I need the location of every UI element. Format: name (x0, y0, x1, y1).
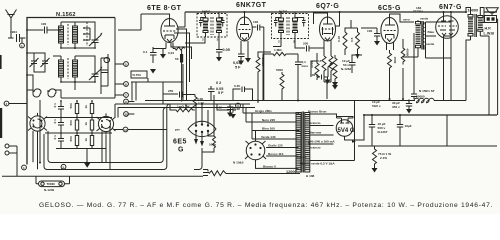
tube V1 6TE8 envelope (161, 19, 178, 43)
speaker horn (486, 8, 498, 13)
junction (339, 11, 341, 13)
bus: second left vertical (39, 100, 41, 163)
wire: mid net links (258, 52, 328, 101)
svg-text:L.W.B: L.W.B (484, 32, 495, 36)
wire: bias rail right (434, 100, 466, 102)
svg-text:5: 5 (63, 165, 65, 169)
svg-text:11: 11 (124, 128, 128, 132)
resistor 45000 vert (401, 45, 409, 65)
svg-text:M.791: M.791 (202, 10, 211, 14)
svg-text:0 2: 0 2 (216, 81, 221, 85)
coil small curl B (48, 89, 56, 97)
bus: ground line full width (2, 175, 203, 177)
junction (244, 11, 246, 13)
junction (74, 47, 76, 49)
ground cathode (150, 54, 166, 74)
T2 trimmer caps (274, 18, 306, 27)
terminal 3 (near 6E5) (236, 103, 241, 108)
resistor 0.04 (cathode zigzag) (168, 47, 185, 55)
resistor 0.5meg vert (V3 grid leak) (317, 56, 326, 74)
svg-text:per: per (175, 128, 181, 132)
tube V5 6N7 envelope (436, 16, 459, 39)
wire: tap 240 (310, 143, 334, 145)
svg-text:Bianco: Bianco (296, 155, 306, 159)
svg-text:TONO: TONO (47, 182, 56, 186)
svg-text:500: 500 (69, 120, 73, 125)
wire: trimmer tops (27, 53, 45, 72)
ground V2 cathode (238, 58, 251, 65)
svg-text:1904: 1904 (10, 30, 17, 34)
curl osc (104, 57, 110, 62)
oscillator section wires (101, 54, 108, 94)
resistor 30000 vert (screen feed) (256, 55, 265, 103)
wire: oscillator link (131, 64, 183, 100)
capacitor 0.025 (6E5) (227, 104, 240, 113)
arrow down AVC (356, 54, 360, 59)
PT tap Bleu 160 (252, 127, 299, 131)
svg-text:100: 100 (41, 22, 46, 26)
capacitor 100 (plate bypass) (310, 73, 328, 80)
bias grid column x61 capacitor (53, 101, 64, 149)
voltage selector socket (245, 141, 266, 164)
junction dots rails (39, 98, 410, 164)
terminal 6 (115, 82, 128, 87)
svg-text:N·1249: N·1249 (44, 188, 54, 192)
coil small curl A (33, 89, 41, 97)
arrow 240 (352, 140, 356, 143)
bus: mid horizontal rails (145, 100, 415, 102)
wire: under 6Q7 (324, 74, 331, 99)
svg-text:5: 5 (125, 63, 127, 67)
resistor 1meg (6E5 grid) (174, 105, 195, 112)
junction (465, 11, 467, 13)
wire: curls to bottom (27, 75, 61, 98)
svg-text:3: 3 (237, 104, 239, 108)
coil L2 primary (59, 56, 64, 82)
wire: AVC rail (345, 20, 358, 55)
mains cord wavy (209, 171, 228, 176)
capacitor 100 (38, 22, 59, 34)
ground mid-bottom (84, 163, 90, 168)
wire: box bottom stubs (61, 90, 115, 98)
resistor 50 (solid) (175, 54, 183, 63)
electrolytic 16uF 500v a (369, 115, 388, 146)
capacitor 0.45 (234, 84, 249, 92)
T2 core (287, 17, 289, 35)
T1 trimmer caps (199, 18, 225, 27)
svg-text:1k: 1k (84, 122, 88, 126)
svg-text:50: 50 (175, 57, 179, 61)
junction (74, 81, 76, 83)
svg-text:500: 500 (69, 103, 73, 108)
arrow 6E5 pin (194, 139, 204, 147)
svg-text:Arancio: Arancio (309, 121, 321, 125)
svg-text:6N7·G: 6N7·G (439, 4, 462, 11)
wire: V4 cathode down (352, 55, 390, 99)
socket B (output tubes, bottom view) (97, 113, 116, 134)
svg-text:Giallo 125: Giallo 125 (268, 144, 283, 148)
wire: T3 primary bottom (403, 56, 418, 58)
wire: 6E5 pins (170, 95, 225, 141)
svg-text:Nero 220: Nero 220 (262, 118, 275, 122)
PT tap Rosso 110 (266, 152, 299, 156)
electrolytic 30uF 350v (392, 101, 412, 110)
svg-text:2: 2 (6, 102, 8, 106)
capacitor 250 osc pad (168, 89, 188, 98)
wire: grid entry (361, 27, 377, 29)
ground 30uF (406, 109, 412, 114)
T1 secondary coil (217, 16, 222, 37)
wire: drops to 6E5 rail (211, 89, 253, 101)
resistor 75ohm 1W (373, 146, 392, 168)
T2 primary coil (279, 16, 284, 39)
PT tap Verde 140 (252, 135, 299, 139)
wire: T1 pins (185, 12, 219, 43)
wire: 5V4 cathode out (345, 115, 365, 140)
terminal 9 (124, 99, 135, 104)
capacitor 1904 (antenna series) (8, 30, 26, 42)
wire: L2 connections (53, 56, 95, 90)
tube V4 internals (384, 17, 397, 50)
tube V2 internals (239, 17, 251, 48)
junction (280, 11, 282, 13)
wire: 6E5 bottom (194, 148, 214, 170)
junction dots bias (60, 100, 93, 134)
wire: grid lead into box (26, 29, 38, 31)
bus: rounded rail B (48, 108, 255, 163)
svg-text:0.45: 0.45 (234, 84, 240, 88)
wire: coil box top border (27, 18, 115, 100)
electrolytic 10uF (341, 58, 356, 71)
ground pot (332, 82, 338, 87)
svg-text:6Q7·G: 6Q7·G (316, 3, 339, 10)
tube V3 6Q7 envelope (320, 17, 336, 41)
svg-text:1k: 1k (84, 105, 88, 109)
label per 6E5 G (173, 128, 187, 154)
svg-text:45000: 45000 (406, 49, 410, 58)
svg-text:5 F: 5 F (235, 66, 241, 70)
wire: secondary to right bus (480, 35, 489, 37)
svg-text:G: G (178, 147, 184, 154)
T2 secondary coil (293, 16, 298, 39)
trimmer capacitor P2 (41, 56, 50, 69)
resistor 0.08 1W (191, 95, 204, 109)
coil L1 primary (59, 22, 64, 48)
T3 core (422, 21, 423, 50)
resistor 1meg vert (329, 56, 333, 74)
svg-text:0.5: 0.5 (350, 37, 354, 42)
terminal 15 (22, 165, 27, 170)
wire: cord to selector (228, 173, 300, 175)
svg-text:tono: tono (302, 64, 309, 68)
bus: rounded rail A (44, 104, 250, 170)
core L2 (67, 58, 69, 79)
svg-text:500: 500 (69, 136, 73, 141)
capacitor 0.05 5F mid (208, 86, 224, 101)
ground 75ohm (372, 168, 378, 173)
svg-text:250: 250 (168, 89, 173, 93)
svg-text:verde: verde (420, 17, 429, 21)
wire: grid top cap to band (118, 14, 170, 30)
resistor 1meg horizontal (271, 48, 288, 56)
svg-text:Bianco verde 6,3 V 1&A: Bianco verde 6,3 V 1&A (300, 162, 335, 166)
bias grid column x77 resistor 500 (69, 101, 79, 149)
wire: speaker leads (486, 13, 498, 23)
svg-text:2 2%: 2 2% (380, 156, 387, 160)
tuning capacitor CV1 (89, 32, 102, 48)
svg-text:N 150/1 ST: N 150/1 ST (419, 89, 435, 93)
tube V3 internals (322, 17, 335, 48)
wire: tap marrone (310, 134, 334, 136)
junction (443, 11, 445, 13)
wire: 6Q7 cath (334, 82, 336, 85)
wire: V2 plate top (244, 12, 246, 17)
svg-text:H 108: H 108 (306, 174, 315, 178)
PT primary winding (296, 113, 301, 173)
svg-text:Arancio: Arancio (309, 146, 321, 150)
wire: filament tap (310, 125, 334, 127)
svg-text:12000: 12000 (286, 170, 297, 174)
wire: T4 primary taps (466, 8, 484, 101)
ground under T1 (216, 57, 222, 62)
svg-text:N.1267: N.1267 (378, 130, 388, 134)
PT tap Nero 220 (252, 118, 299, 122)
svg-text:0.1: 0.1 (53, 135, 57, 140)
wire: selector to rails (243, 104, 259, 141)
terminal 7 (115, 93, 128, 98)
core L1 (67, 24, 69, 45)
svg-text:3: 3 (293, 40, 295, 44)
driver transformer T3 primary (416, 20, 421, 57)
svg-text:6E5: 6E5 (173, 139, 187, 146)
capacitor 0.1 tono (295, 54, 308, 101)
svg-text:3: 3 (217, 38, 219, 42)
tone control TONO (36, 176, 70, 186)
PT tap Giallo 125 (266, 144, 299, 148)
svg-text:0.1: 0.1 (143, 50, 148, 54)
svg-text:100: 100 (367, 29, 372, 33)
svg-text:1mΩ 1W: 1mΩ 1W (177, 105, 190, 109)
svg-text:0.1: 0.1 (53, 119, 57, 124)
svg-text:6NK7GT: 6NK7GT (236, 2, 267, 9)
junction (363, 114, 365, 116)
left edge smudge 2 (0, 55, 2, 69)
wire: drop from screen rail (264, 73, 281, 101)
wire: sockets down (33, 128, 110, 169)
T4 secondary (478, 16, 483, 37)
svg-text:1k: 1k (84, 138, 88, 142)
svg-text:N.753: N.753 (133, 73, 142, 77)
tube V4 6C5 envelope (381, 18, 398, 44)
node 1 (circled terminal) (20, 38, 25, 48)
svg-text:10000: 10000 (468, 9, 479, 13)
svg-text:0,5: 0,5 (317, 59, 322, 63)
ground 0.025 (227, 113, 233, 118)
wire: osc pad net (132, 82, 195, 104)
wire: plate to IF1 (178, 12, 185, 27)
svg-text:GELOSO. — Mod. G. 77 R. – AF e: GELOSO. — Mod. G. 77 R. – AF e M.F come … (39, 202, 493, 209)
svg-text:5000: 5000 (276, 68, 283, 72)
power transformer core (302, 112, 304, 173)
capacitor 100 screen (252, 20, 263, 31)
svg-text:0.1: 0.1 (53, 103, 57, 108)
trimmer capacitor P1 (30, 56, 39, 69)
svg-text:6TE 8·GT: 6TE 8·GT (147, 5, 182, 12)
wire box (secondary leads) (426, 22, 452, 58)
svg-text:5V4 G: 5V4 G (338, 128, 355, 134)
svg-text:nero: nero (403, 18, 410, 22)
terminal 2 (left edge) (4, 101, 27, 106)
wire: L1 top links (59, 22, 75, 30)
svg-text:2: 2 (202, 38, 204, 42)
wire: V3 grid cap (314, 13, 328, 24)
coil L2 secondary (73, 56, 78, 82)
svg-text:Grigio 280v: Grigio 280v (255, 109, 272, 113)
phono input jacks (5, 144, 17, 176)
svg-text:16µF: 16µF (405, 124, 412, 128)
svg-text:6: 6 (125, 83, 127, 87)
svg-text:Rosso 110: Rosso 110 (268, 152, 284, 156)
wire: V5 cathodes down (444, 46, 452, 101)
terminal 16 (61, 164, 66, 169)
ground 6Q7 cath (332, 85, 338, 90)
bias grid column x92 resistor 1k (84, 101, 94, 149)
capacitor 250 (300, 42, 316, 52)
output transformer T4 primary (468, 14, 473, 41)
wire: V5 plates up to B+ (444, 12, 452, 15)
svg-text:Bianco Brun: Bianco Brun (308, 110, 327, 114)
capacitor osc pad (101, 68, 108, 73)
ground 6E5 cap (230, 113, 236, 119)
svg-text:Bleu 160: Bleu 160 (262, 127, 275, 131)
wire: 5V4 plates (337, 114, 354, 118)
resistor 0.15meg AVC (337, 32, 347, 52)
bus: B+ rail to filter (364, 114, 497, 116)
svg-text:TETRA: TETRA (413, 10, 424, 14)
svg-text:verde: verde (426, 42, 435, 46)
svg-text:Bianco 0: Bianco 0 (263, 164, 276, 168)
resistor 4700 vert (310, 61, 319, 80)
resistor 1500 (V4 cathode) (388, 50, 398, 70)
band switch contacts (83, 27, 90, 41)
coil L1 secondary (73, 22, 78, 48)
svg-text:0,04: 0,04 (168, 51, 174, 55)
terminal 10 (124, 112, 135, 117)
svg-text:0.15: 0.15 (337, 36, 341, 42)
wire: heater 6.3 (310, 101, 355, 161)
wire: L1 to CV1 (61, 22, 95, 48)
PT tap Grigio 280v (252, 109, 299, 113)
svg-text:1500: 1500 (393, 57, 397, 64)
ground 100 (325, 80, 331, 85)
terminal 11 (114, 127, 167, 132)
T3 secondary (423, 22, 424, 50)
svg-text:N 10&5: N 10&5 (233, 161, 244, 165)
dashed core antenna section (86, 22, 88, 46)
speaker terminal block (485, 16, 497, 23)
svg-text:10: 10 (125, 113, 129, 117)
svg-text:0.05: 0.05 (223, 48, 230, 52)
tube V6 5V4G envelope (336, 120, 353, 137)
junction dots box (26, 47, 96, 83)
IF transformer T1 box (197, 14, 227, 38)
wire: electrode bundle (171, 29, 192, 101)
tube V5 internals (438, 15, 457, 46)
svg-text:250: 250 (303, 42, 308, 46)
svg-text:6C5·G: 6C5·G (378, 5, 401, 12)
capacitor 100 (6C5 grid) (367, 28, 380, 41)
svg-text:240+240 a 160 mA: 240+240 a 160 mA (308, 140, 335, 144)
terminal 5 (115, 62, 128, 67)
wire: diode AVC net (295, 40, 331, 56)
wire: screen net down (241, 27, 264, 73)
wire: tap bianco (309, 152, 311, 154)
svg-text:2: 2 (278, 40, 280, 44)
svg-text:N·1263: N·1263 (341, 67, 351, 71)
svg-text:Verde 140: Verde 140 (261, 135, 276, 139)
capacitor 0.05 AVC (216, 43, 230, 57)
svg-text:1: 1 (23, 166, 25, 170)
svg-text:100: 100 (253, 20, 258, 24)
svg-text:Bleu: Bleu (428, 30, 435, 34)
volume potentiometer 2meg (328, 55, 337, 82)
T4 core (475, 14, 477, 37)
wire: right edge bus (489, 19, 498, 115)
socket A (output tubes, bottom view) (28, 113, 47, 134)
wire: T2 pins (273, 12, 295, 47)
resistor 30000 (coiled) (414, 95, 434, 103)
PT secondary winding (305, 113, 310, 173)
antenna (6, 10, 17, 39)
svg-text:Marrone: Marrone (309, 131, 321, 135)
left edge smudge (0, 108, 2, 138)
svg-text:500n: 500n (209, 143, 216, 147)
bus: left vertical main (26, 99, 28, 165)
svg-text:50/2 v: 50/2 v (372, 104, 381, 108)
tube V2 6NK7 envelope (237, 17, 253, 41)
electrolytic 10uF 50/2v (372, 94, 417, 108)
V6 internals (337, 118, 354, 123)
T1 core (211, 17, 213, 35)
resistor 0.5meg AVC (350, 32, 360, 52)
bus: B+ top rail (185, 11, 497, 13)
capacitor 0.05 cathode (143, 47, 157, 63)
socket 6E5 (magic eye) (188, 121, 216, 136)
wire: bias grid rails (45, 101, 112, 149)
IF transformer T2 box (272, 14, 309, 39)
svg-text:1 MΩ: 1 MΩ (274, 48, 282, 52)
filter box bottom (358, 115, 497, 146)
capacitor 0.02 (6E5) (216, 106, 236, 113)
PT tap Bianco 0 (252, 164, 299, 169)
wire: socket B to rails (115, 104, 118, 118)
svg-text:350 v: 350 v (392, 105, 400, 109)
resistor 500n (6E5) (209, 136, 216, 148)
svg-text:5 F: 5 F (218, 91, 224, 95)
capacitor 0.04 (233, 52, 245, 70)
resistor 5000 vert (276, 68, 284, 99)
tube V1 internals (163, 19, 176, 49)
T1 primary coil (203, 16, 208, 37)
wire: V4 plate to driver transformer (390, 14, 415, 22)
ground under cap100 (374, 41, 380, 46)
electrolytic 16uF 500v b (397, 115, 412, 146)
svg-text:H.P.: H.P. (485, 27, 492, 31)
wire: V3 plate (336, 12, 340, 26)
mains plug (203, 170, 209, 176)
wire: coil box right border (114, 18, 116, 98)
junction (204, 11, 206, 13)
